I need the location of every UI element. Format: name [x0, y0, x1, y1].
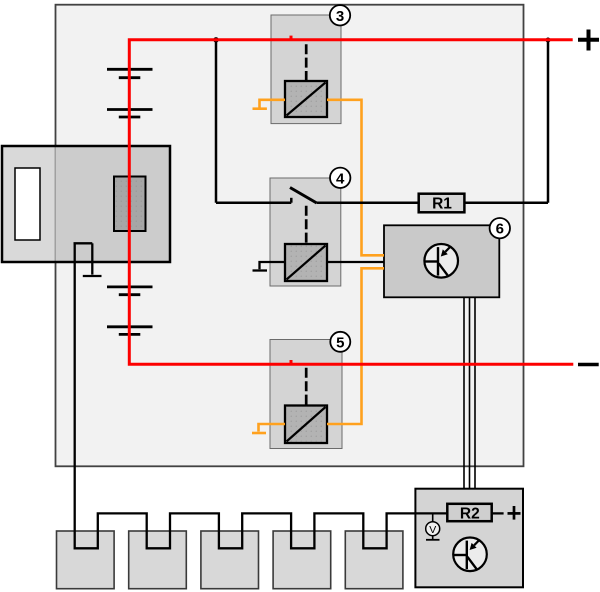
- svg-text:R1: R1: [432, 196, 452, 213]
- svg-text:6: 6: [496, 221, 504, 238]
- svg-text:3: 3: [336, 8, 344, 25]
- svg-text:5: 5: [336, 334, 344, 351]
- svg-text:4: 4: [336, 170, 345, 187]
- svg-text:R2: R2: [460, 505, 480, 522]
- svg-text:V: V: [429, 524, 436, 536]
